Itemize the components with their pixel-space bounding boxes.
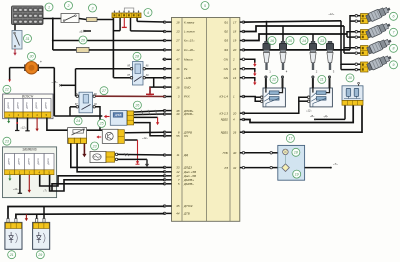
svg-text:13: 13 xyxy=(320,39,324,43)
svg-text:45: 45 xyxy=(176,204,180,208)
svg-text:14: 14 xyxy=(233,76,237,80)
svg-text:«15»: «15» xyxy=(52,80,59,84)
svg-text:49: 49 xyxy=(176,112,180,116)
svg-text:1: 1 xyxy=(48,5,50,9)
svg-text:11: 11 xyxy=(176,153,179,157)
svg-text:«12»: «12» xyxy=(142,136,148,140)
svg-text:23: 23 xyxy=(4,140,9,144)
svg-text:ДМРВ: ДМРВ xyxy=(45,102,47,110)
svg-text:6: 6 xyxy=(393,15,395,19)
svg-text:25: 25 xyxy=(99,122,104,126)
svg-text:+12В: +12В xyxy=(184,76,191,80)
svg-text:«В»: «В» xyxy=(310,115,315,118)
svg-text:К замку: К замку xyxy=(184,20,195,24)
svg-text:Ф4: Ф4 xyxy=(224,48,228,52)
svg-text:РДВ2: РДВ2 xyxy=(221,118,229,122)
svg-text:ДПКВ: ДПКВ xyxy=(114,114,122,117)
svg-text:ДМРВ–: ДМРВ– xyxy=(183,182,194,186)
svg-text:Ф1: Ф1 xyxy=(224,20,228,24)
svg-text:46: 46 xyxy=(176,67,180,71)
svg-text:21: 21 xyxy=(9,253,14,257)
svg-text:20: 20 xyxy=(80,38,85,42)
svg-text:ЛЗ: ЛЗ xyxy=(223,166,228,170)
svg-text:28: 28 xyxy=(134,55,139,59)
svg-text:24: 24 xyxy=(75,119,80,123)
svg-text:10: 10 xyxy=(348,76,352,80)
svg-text:14: 14 xyxy=(176,48,180,52)
svg-text:31: 31 xyxy=(26,37,30,41)
svg-text:ДМРВ: ДМРВ xyxy=(8,102,10,110)
svg-text:ДМРВ: ДМРВ xyxy=(9,158,11,166)
svg-text:SIEMENS: SIEMENS xyxy=(22,148,37,152)
svg-text:22: 22 xyxy=(4,88,9,92)
svg-text:«12»: «12» xyxy=(329,12,335,16)
svg-text:ДМРВ: ДМРВ xyxy=(38,158,40,166)
svg-text:ДМРВ: ДМРВ xyxy=(18,158,20,166)
svg-text:ДПКВ–: ДПКВ– xyxy=(183,112,194,116)
svg-text:РДВ1: РДВ1 xyxy=(221,130,229,134)
svg-text:«12»: «12» xyxy=(21,126,27,130)
svg-text:4: 4 xyxy=(147,11,149,15)
svg-text:Кл.«30»: Кл.«30» xyxy=(184,48,195,52)
svg-text:18: 18 xyxy=(176,20,180,24)
svg-text:Кл.«15»: Кл.«15» xyxy=(184,39,195,43)
svg-text:37: 37 xyxy=(176,76,180,80)
svg-text:«Д»: «Д» xyxy=(324,115,329,118)
svg-text:23: 23 xyxy=(92,144,97,148)
svg-text:16: 16 xyxy=(270,39,274,43)
svg-text:ДТВ: ДТВ xyxy=(183,212,190,216)
svg-text:17: 17 xyxy=(233,20,237,24)
svg-text:5: 5 xyxy=(204,4,206,8)
svg-text:«Т»: «Т» xyxy=(333,162,338,166)
svg-text:47: 47 xyxy=(176,58,180,62)
svg-text:ГПК: ГПК xyxy=(223,151,229,155)
svg-text:«12»: «12» xyxy=(13,188,19,191)
svg-text:19: 19 xyxy=(233,39,237,43)
svg-text:ДМРВ: ДМРВ xyxy=(48,158,50,166)
svg-text:Рк.: Рк. xyxy=(184,67,188,71)
svg-text:27: 27 xyxy=(175,39,180,43)
svg-text:GND: GND xyxy=(184,85,190,89)
svg-text:ДТОЖ: ДТОЖ xyxy=(183,204,193,208)
svg-text:ОЧ: ОЧ xyxy=(184,134,188,138)
svg-text:ДД: ДД xyxy=(183,153,188,157)
svg-text:ДПДЗ: ДПДЗ xyxy=(183,166,192,170)
svg-text:BOSCH: BOSCH xyxy=(22,95,34,99)
svg-text:33: 33 xyxy=(176,166,180,170)
svg-text:40: 40 xyxy=(233,151,237,155)
svg-text:32: 32 xyxy=(233,166,237,170)
svg-text:«12»: «12» xyxy=(306,109,312,113)
svg-text:«Т»: «Т» xyxy=(43,190,48,193)
svg-text:Ф3: Ф3 xyxy=(224,39,228,43)
svg-text:ДМРВ: ДМРВ xyxy=(17,102,19,110)
svg-text:2: 2 xyxy=(67,4,70,8)
svg-text:16: 16 xyxy=(176,85,180,89)
svg-text:9: 9 xyxy=(393,63,395,67)
svg-text:Ф2: Ф2 xyxy=(224,30,228,34)
svg-text:ДМРВ: ДМРВ xyxy=(36,102,38,110)
svg-text:Масса: Масса xyxy=(184,58,193,62)
svg-text:20: 20 xyxy=(232,111,237,115)
svg-text:20: 20 xyxy=(232,48,237,52)
svg-text:26: 26 xyxy=(232,130,237,134)
svg-text:ДМРВ: ДМРВ xyxy=(27,102,29,110)
svg-text:12: 12 xyxy=(272,78,276,82)
svg-text:26: 26 xyxy=(134,103,139,107)
svg-text:30: 30 xyxy=(30,55,34,59)
svg-text:18: 18 xyxy=(233,30,237,34)
svg-text:18: 18 xyxy=(294,151,298,155)
svg-text:3: 3 xyxy=(92,6,94,10)
svg-text:ДМРВ: ДМРВ xyxy=(28,158,30,166)
svg-text:8: 8 xyxy=(393,47,395,51)
svg-text:2: 2 xyxy=(232,58,235,62)
svg-text:L-линия: L-линия xyxy=(184,30,195,34)
svg-text:КЗ-2,3: КЗ-2,3 xyxy=(220,111,229,115)
svg-text:24: 24 xyxy=(232,67,237,71)
svg-text:44: 44 xyxy=(176,212,180,216)
svg-text:55: 55 xyxy=(176,134,180,138)
svg-text:29: 29 xyxy=(37,253,42,257)
svg-text:КЗ-1,4: КЗ-1,4 xyxy=(220,95,229,99)
svg-text:19: 19 xyxy=(295,172,299,176)
svg-text:11: 11 xyxy=(320,78,324,82)
svg-text:13: 13 xyxy=(176,30,180,34)
svg-text:15: 15 xyxy=(288,39,292,43)
svg-text:14: 14 xyxy=(302,39,306,43)
